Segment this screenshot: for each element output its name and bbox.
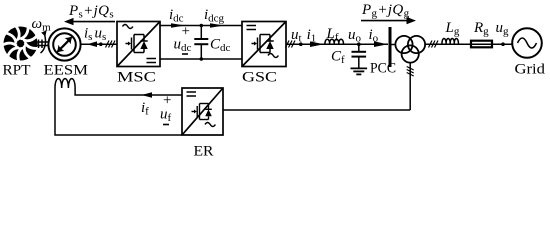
node dot uo (357, 42, 361, 46)
field winding coil (55, 79, 75, 88)
junction dot top rail (200, 24, 204, 28)
ground symbol (351, 68, 368, 74)
MSC ac tilde (123, 25, 133, 29)
svg-text:RPT: RPT (3, 63, 31, 79)
grid inductor Lg (442, 38, 459, 44)
grid sine wave (518, 38, 537, 48)
ER ac tilde (205, 123, 215, 127)
field lower wire (55, 88, 182, 135)
converter MSC box (117, 22, 160, 67)
node dot ug (501, 42, 505, 46)
idcg arrow (210, 23, 224, 27)
wire busbar to transformer (392, 44, 397, 46)
GSC IGBT symbol (252, 35, 274, 53)
wire to ER (223, 109, 410, 111)
grid source circle (512, 28, 542, 58)
grid power arrow (361, 17, 416, 24)
stator current arrow (left) (87, 41, 97, 47)
ER IGBT symbol (192, 104, 212, 120)
MSC dc equals (147, 59, 157, 63)
svg-text:GSC: GSC (242, 70, 277, 86)
svg-text:MSC: MSC (117, 70, 156, 86)
junction dot bottom rail (200, 57, 204, 61)
node dot ut (299, 42, 303, 46)
transformer (three windings) (395, 36, 425, 63)
wind turbine RPT rotor (2, 26, 38, 62)
dc-link capacitor Cdc (194, 26, 208, 60)
grid resistor Rg (471, 41, 492, 48)
three-phase slashes GSC output (286, 41, 296, 48)
field current arrow if (left) (142, 92, 153, 98)
label uf with polarity (160, 93, 172, 125)
svg-text:+: + (182, 24, 190, 40)
ER dc equals (187, 92, 197, 96)
stator wire EESM to MSC (80, 43, 117, 45)
converter GSC box (242, 22, 286, 67)
three-phase slashes stator (106, 41, 116, 48)
three-phase slashes tertiary (407, 67, 414, 77)
dc top rail (160, 25, 242, 27)
svg-text:Ps+jQs: Ps+jQs (68, 3, 114, 21)
svg-text:Grid: Grid (515, 62, 546, 78)
shaft between RPT and EESM (33, 40, 49, 49)
wire transformer to grid (425, 43, 512, 45)
GSC dc equals (247, 26, 257, 30)
transformer tertiary wire down (409, 63, 411, 110)
svg-text:PCC: PCC (370, 61, 396, 77)
three-phase slashes transformer right (429, 41, 439, 48)
converter current arrow i1 (310, 41, 324, 47)
svg-text:Pg+jQg: Pg+jQg (361, 2, 410, 20)
label udc with polarity (174, 24, 192, 55)
node dot on stator wire (99, 42, 103, 46)
svg-text:ER: ER (194, 144, 214, 160)
generator EESM (48, 28, 80, 60)
filter inductor Lf (325, 39, 344, 44)
grid current arrow io (374, 41, 388, 47)
wire GSC to PCC (286, 43, 388, 45)
stator power arrow (64, 18, 115, 25)
EESM rotor arrow symbol (56, 36, 73, 53)
PCC busbar (389, 27, 392, 67)
svg-text:EESM: EESM (44, 63, 89, 79)
GSC ac tilde (268, 54, 278, 58)
excitation rectifier ER box (182, 88, 223, 135)
field upper wire (75, 88, 182, 95)
MSC IGBT symbol (126, 35, 148, 53)
dc bottom rail (160, 58, 242, 60)
idc arrow (171, 23, 185, 27)
filter capacitor Cf (352, 44, 367, 68)
speed arrow omega_m (41, 34, 46, 54)
